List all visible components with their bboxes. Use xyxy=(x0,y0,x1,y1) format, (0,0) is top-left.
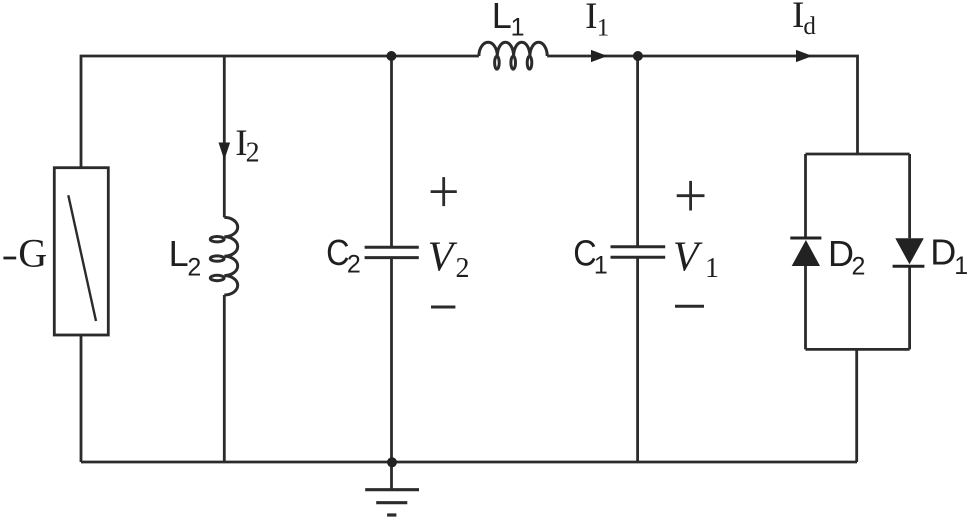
svg-text:1: 1 xyxy=(594,252,608,280)
svg-text:V: V xyxy=(428,234,458,280)
svg-text:D: D xyxy=(930,232,956,273)
svg-text:2: 2 xyxy=(852,253,866,281)
svg-text:2: 2 xyxy=(456,253,470,284)
svg-text:D: D xyxy=(828,233,854,274)
svg-text:1: 1 xyxy=(511,14,525,42)
svg-text:I: I xyxy=(585,0,597,37)
svg-text:1: 1 xyxy=(597,15,610,42)
svg-text:L: L xyxy=(169,233,189,274)
svg-text:2: 2 xyxy=(347,251,361,279)
svg-text:1: 1 xyxy=(954,252,968,280)
svg-text:V: V xyxy=(673,235,703,281)
svg-text:d: d xyxy=(803,13,816,40)
svg-text:1: 1 xyxy=(705,253,719,284)
svg-text:G: G xyxy=(18,231,47,276)
svg-text:L: L xyxy=(492,0,512,36)
svg-text:2: 2 xyxy=(246,138,260,169)
svg-text:2: 2 xyxy=(187,253,201,281)
